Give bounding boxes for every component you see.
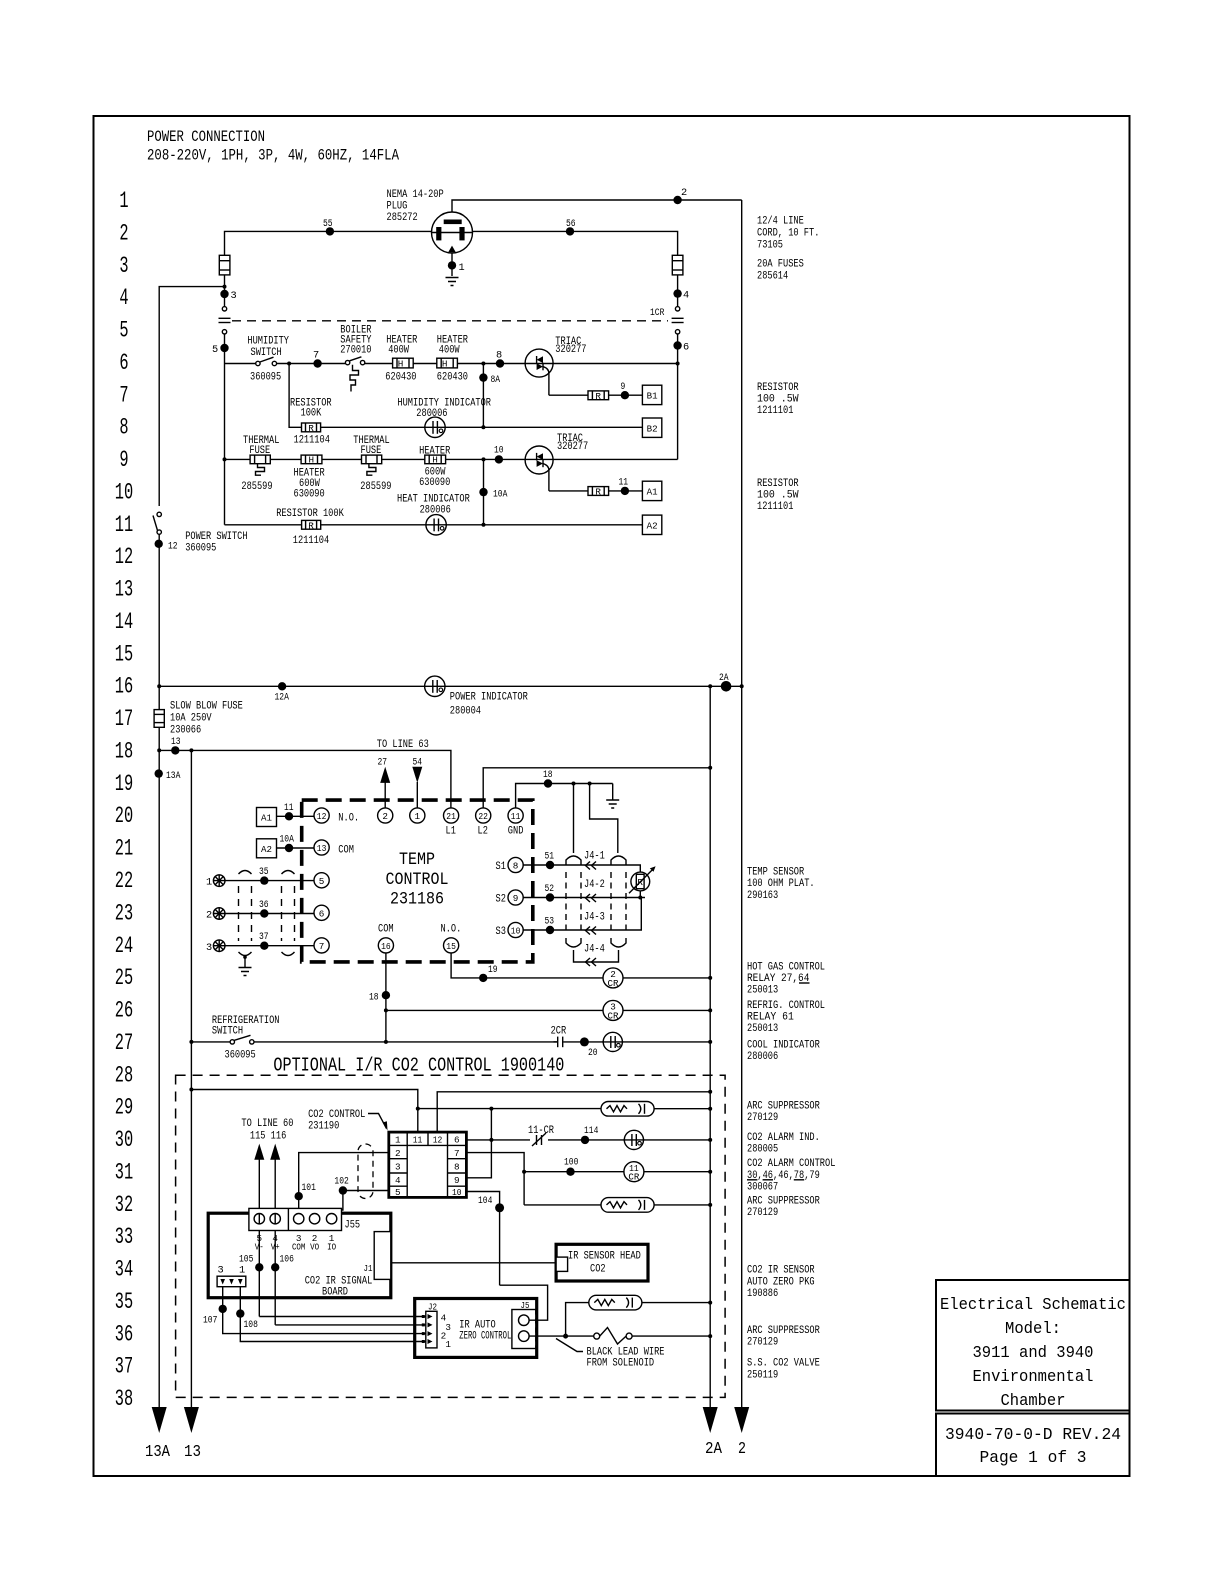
svg-text:ARC SUPPRESSOR: ARC SUPPRESSOR <box>747 1325 820 1337</box>
node 10A <box>479 459 508 524</box>
svg-text:360095: 360095 <box>250 372 281 384</box>
TO LINE 63 label <box>377 739 429 751</box>
svg-text:2: 2 <box>206 910 212 922</box>
svg-text:19: 19 <box>115 771 133 797</box>
svg-text:28: 28 <box>115 1062 133 1088</box>
node 100 <box>564 1157 578 1176</box>
cable oval co2 <box>358 1144 373 1199</box>
svg-text:1: 1 <box>395 1135 401 1146</box>
thermal fuse TF1 <box>241 435 279 493</box>
slow blow fuse <box>154 701 243 737</box>
svg-text:27: 27 <box>378 757 388 769</box>
wire 22 up to bus2A <box>483 766 712 808</box>
svg-text:270129: 270129 <box>747 1337 778 1349</box>
svg-text:31: 31 <box>115 1159 133 1185</box>
node 12 <box>155 540 178 553</box>
svg-text:6: 6 <box>454 1135 460 1146</box>
wire 107 <box>223 1287 426 1334</box>
svg-text:17: 17 <box>115 706 133 732</box>
wire row9 <box>223 364 678 525</box>
right annotation refrig relay <box>747 1000 825 1035</box>
svg-text:4: 4 <box>395 1175 401 1186</box>
svg-text:TEMP: TEMP <box>399 850 435 870</box>
svg-text:RELAY 61: RELAY 61 <box>747 1012 794 1024</box>
svg-text:RESISTOR 100K: RESISTOR 100K <box>276 508 344 520</box>
terminal 12 <box>314 808 359 825</box>
svg-text:13A: 13A <box>145 1442 170 1461</box>
svg-text:18: 18 <box>543 769 553 781</box>
1CR contact right <box>650 307 684 460</box>
svg-text:5: 5 <box>395 1187 401 1198</box>
svg-text:S.S. CO2 VALVE: S.S. CO2 VALVE <box>747 1358 820 1370</box>
node 107 <box>203 1305 227 1327</box>
shield stub left <box>572 782 576 854</box>
svg-text:NEMA 14-20P: NEMA 14-20P <box>387 189 444 201</box>
svg-text:55: 55 <box>323 218 333 230</box>
svg-text:COM: COM <box>292 1242 306 1253</box>
wire A 13bus to pin11 <box>189 1088 417 1133</box>
svg-text:250013: 250013 <box>747 1023 778 1035</box>
wire S2 <box>523 883 645 902</box>
svg-text:360095: 360095 <box>225 1050 256 1062</box>
wire row25 <box>451 953 712 980</box>
arc suppressor pill 3 <box>566 1295 713 1336</box>
svg-text:2CR: 2CR <box>551 1026 567 1038</box>
svg-text:COM: COM <box>338 845 354 857</box>
svg-text:630090: 630090 <box>294 489 325 501</box>
svg-text:POWER CONNECTION: POWER CONNECTION <box>147 128 265 146</box>
svg-text:H: H <box>398 359 404 370</box>
J4 shield oval 1 <box>566 856 581 947</box>
svg-text:Chamber: Chamber <box>1001 1391 1066 1410</box>
co2 ir signal board box <box>208 1213 391 1298</box>
svg-text:CO2 CONTROL: CO2 CONTROL <box>308 1109 365 1121</box>
node 2A <box>719 672 731 692</box>
svg-text:2: 2 <box>738 1439 746 1458</box>
CO2 control label <box>308 1109 387 1133</box>
svg-text:108: 108 <box>244 1319 258 1331</box>
arrow 2A bottom <box>703 1407 722 1458</box>
fuse F1 left <box>219 255 230 275</box>
11-CR contact <box>528 1125 554 1146</box>
svg-text:12A: 12A <box>275 692 290 704</box>
wire row31 <box>524 1170 712 1174</box>
wire 105 to J2 pin4 <box>259 1316 426 1318</box>
wire row6 <box>225 363 678 365</box>
wire A1 to 12 + node 11 <box>277 802 315 821</box>
svg-text:A1: A1 <box>647 487 658 498</box>
svg-text:Model:: Model: <box>1005 1319 1061 1338</box>
wire node4 to 1CR right <box>677 275 679 307</box>
svg-text:360095: 360095 <box>185 543 216 555</box>
arrow 13A bottom <box>145 1407 170 1461</box>
svg-text:2: 2 <box>395 1148 401 1159</box>
svg-text:320277: 320277 <box>555 344 586 356</box>
heat indicator lamp <box>397 494 470 536</box>
co2 alarm indicator lamp <box>623 1130 644 1149</box>
svg-text:2A: 2A <box>705 1439 722 1458</box>
junction resistor branch row6 <box>287 362 291 366</box>
humidity switch S1 <box>247 336 289 384</box>
svg-text:13A: 13A <box>166 770 181 782</box>
wire 106 to J2 pin3 <box>275 1324 426 1326</box>
svg-text:8: 8 <box>119 415 128 441</box>
svg-text:11: 11 <box>115 512 133 538</box>
svg-text:34: 34 <box>115 1257 133 1283</box>
svg-text:3: 3 <box>445 1322 451 1333</box>
relay coil 3CR <box>603 1000 623 1021</box>
svg-text:100 OHM PLAT.: 100 OHM PLAT. <box>747 878 815 890</box>
svg-text:S2: S2 <box>496 894 506 906</box>
svg-text:35: 35 <box>259 866 269 878</box>
wire row32 <box>524 1203 712 1207</box>
svg-text:ZERO CONTROL: ZERO CONTROL <box>459 1331 511 1343</box>
wire lamp1 to 5 + node 35 <box>225 866 314 885</box>
svg-text:8A: 8A <box>491 374 501 386</box>
node 20 <box>580 1037 598 1059</box>
svg-text:H: H <box>432 455 438 466</box>
svg-text:280006: 280006 <box>747 1051 778 1063</box>
wire J5 bottom solenoid <box>529 1334 594 1339</box>
resistor 100K row11 <box>276 508 344 547</box>
lamp cable shield right <box>282 871 295 956</box>
J55 connector strip <box>249 1208 360 1231</box>
svg-text:400W: 400W <box>388 345 409 357</box>
bus 2A vertical <box>709 686 711 1407</box>
wire row29 to pill <box>491 1108 601 1110</box>
svg-text:11: 11 <box>511 811 521 822</box>
svg-text:S3: S3 <box>496 926 507 938</box>
wire row2 <box>225 231 678 255</box>
terminal box A2 (temp) <box>257 839 277 858</box>
node 19 <box>479 964 498 982</box>
svg-text:3940-70-0-D REV.24: 3940-70-0-D REV.24 <box>945 1425 1121 1444</box>
wire lamp2 to 6 + node 36 <box>225 899 314 918</box>
svg-text:J4-2: J4-2 <box>584 879 605 891</box>
terminal 2 <box>378 808 393 823</box>
node 13A <box>155 769 182 782</box>
bus 13A vertical <box>158 534 160 1407</box>
heater H1 400W <box>385 335 417 384</box>
svg-text:HOT GAS CONTROL: HOT GAS CONTROL <box>747 962 825 974</box>
svg-text:1: 1 <box>459 262 465 274</box>
svg-text:2: 2 <box>119 220 128 246</box>
svg-text:620430: 620430 <box>437 372 468 384</box>
svg-text:33: 33 <box>115 1224 133 1250</box>
svg-text:TO LINE 63: TO LINE 63 <box>377 739 429 751</box>
wire S3 <box>523 898 641 935</box>
svg-text:12: 12 <box>433 1135 443 1146</box>
node 106 <box>271 1254 294 1272</box>
right annotation resistor 2 <box>757 478 799 513</box>
svg-text:R: R <box>308 520 314 531</box>
svg-text:12/4 LINE: 12/4 LINE <box>757 216 804 228</box>
svg-text:S1: S1 <box>496 861 507 873</box>
svg-text:250013: 250013 <box>747 985 778 997</box>
svg-text:5: 5 <box>212 344 218 356</box>
J4-1 label <box>584 851 605 870</box>
svg-text:3: 3 <box>218 1265 224 1277</box>
svg-text:13: 13 <box>171 736 181 748</box>
node 55 <box>323 218 334 236</box>
right annotation ss co2 valve <box>747 1358 820 1382</box>
J4 shield oval 2 <box>611 856 626 947</box>
stub wire to 13A bus <box>159 285 226 506</box>
svg-text:13: 13 <box>115 577 133 603</box>
svg-text:106: 106 <box>280 1254 294 1266</box>
svg-text:A2: A2 <box>647 520 658 531</box>
black lead wire label <box>556 1339 665 1370</box>
svg-text:15: 15 <box>115 641 133 667</box>
svg-text:OPTIONAL I/R CO2 CONTROL 19001: OPTIONAL I/R CO2 CONTROL 1900140 <box>273 1055 564 1077</box>
svg-text:285599: 285599 <box>360 481 391 493</box>
svg-text:35: 35 <box>115 1289 133 1315</box>
CO2 dashed box <box>176 1075 726 1397</box>
svg-text:CR: CR <box>608 1010 619 1021</box>
svg-text:HUMIDITY: HUMIDITY <box>247 336 289 348</box>
wire row18 <box>157 748 451 808</box>
header POWER CONNECTION <box>147 128 400 165</box>
J5 connector <box>512 1300 536 1349</box>
node 11 <box>619 477 630 496</box>
svg-text:2: 2 <box>382 811 388 822</box>
svg-text:5: 5 <box>319 876 325 887</box>
svg-text:10: 10 <box>452 1187 462 1198</box>
node 6 <box>673 341 689 353</box>
svg-text:22: 22 <box>478 811 488 822</box>
svg-text:A2: A2 <box>261 844 272 855</box>
svg-text:CO2 IR SENSOR: CO2 IR SENSOR <box>747 1265 815 1277</box>
terminal 6 <box>314 905 329 920</box>
svg-text:20: 20 <box>588 1047 598 1059</box>
shield drain + ground <box>239 955 252 975</box>
svg-text:1: 1 <box>445 1339 451 1350</box>
svg-text:GND: GND <box>508 826 524 838</box>
right annotation hot gas relay <box>747 962 825 997</box>
terminal box B2 <box>642 418 661 437</box>
node 13 <box>171 736 181 755</box>
NEMA 14-20P plug label <box>387 189 444 224</box>
svg-text:9: 9 <box>454 1175 460 1186</box>
wire row27 <box>189 1040 712 1044</box>
node 12A <box>275 682 290 703</box>
svg-text:10: 10 <box>494 445 504 457</box>
junction bus2A row16 <box>708 684 712 688</box>
svg-text:1: 1 <box>206 877 212 889</box>
svg-text:Page 1 of 3: Page 1 of 3 <box>980 1448 1087 1467</box>
RTD temp sensor R <box>629 866 656 893</box>
svg-text:POWER INDICATOR: POWER INDICATOR <box>450 692 528 704</box>
svg-text:POWER SWITCH: POWER SWITCH <box>185 531 247 543</box>
svg-text:12: 12 <box>168 541 178 553</box>
svg-text:300067: 300067 <box>747 1181 778 1193</box>
svg-text:VO: VO <box>310 1242 319 1253</box>
wire J5 top to 104 <box>500 1285 548 1320</box>
cool indicator lamp <box>602 1032 623 1051</box>
J4-2 label <box>584 879 605 902</box>
TO LINE 60 labels <box>241 1118 293 1143</box>
svg-text:7: 7 <box>119 382 128 408</box>
svg-text:B1: B1 <box>647 391 658 402</box>
svg-text:230066: 230066 <box>170 725 201 737</box>
svg-text:29: 29 <box>115 1095 133 1121</box>
power indicator lamp <box>424 676 528 717</box>
svg-text:AUTO ZERO PKG: AUTO ZERO PKG <box>747 1276 815 1288</box>
svg-text:CO2 ALARM IND.: CO2 ALARM IND. <box>747 1132 820 1144</box>
svg-text:CO2 ALARM CONTROL: CO2 ALARM CONTROL <box>747 1158 836 1170</box>
terminal 15 <box>441 924 462 954</box>
svg-text:CR: CR <box>608 978 619 989</box>
svg-text:13: 13 <box>317 843 327 854</box>
humidity indicator lamp <box>397 398 491 438</box>
svg-text:H: H <box>442 359 448 370</box>
svg-text:630090: 630090 <box>419 477 450 489</box>
svg-text:100 .5W: 100 .5W <box>757 394 799 406</box>
svg-text:290163: 290163 <box>747 890 778 902</box>
svg-text:36: 36 <box>259 899 269 911</box>
svg-text:IO: IO <box>327 1242 336 1253</box>
svg-text:30,46,46,78,79: 30,46,46,78,79 <box>747 1170 820 1182</box>
svg-text:280004: 280004 <box>450 706 481 718</box>
svg-text:100 .5W: 100 .5W <box>757 490 799 502</box>
svg-text:27: 27 <box>115 1030 133 1056</box>
resistor 100K row8 <box>290 398 332 447</box>
svg-text:1211101: 1211101 <box>757 405 794 417</box>
svg-text:V+: V+ <box>271 1242 280 1253</box>
svg-text:IR SENSOR HEAD: IR SENSOR HEAD <box>568 1251 641 1263</box>
svg-text:3: 3 <box>206 942 212 954</box>
svg-text:280005: 280005 <box>747 1144 778 1156</box>
svg-text:51: 51 <box>545 851 555 863</box>
boiler safety switch <box>340 325 371 392</box>
ground below plug <box>446 278 459 286</box>
wire row26 <box>384 1008 712 1012</box>
svg-text:FROM SOLENOID: FROM SOLENOID <box>587 1358 655 1370</box>
svg-text:R: R <box>595 391 601 402</box>
svg-text:H: H <box>309 455 315 466</box>
J4-3 label <box>584 912 605 935</box>
svg-text:21: 21 <box>446 811 456 822</box>
1CR contact left <box>219 307 231 364</box>
terminal box A1 <box>642 481 661 500</box>
svg-text:1: 1 <box>119 188 128 214</box>
svg-text:13: 13 <box>184 1442 201 1461</box>
svg-text:SLOW BLOW FUSE: SLOW BLOW FUSE <box>170 701 243 713</box>
svg-text:RESISTOR: RESISTOR <box>757 382 799 394</box>
svg-text:270129: 270129 <box>747 1207 778 1219</box>
svg-text:208-220V, 1PH, 3P, 4W, 60HZ, 1: 208-220V, 1PH, 3P, 4W, 60HZ, 14FLA <box>147 147 400 165</box>
pilot lamp 3 <box>206 940 225 954</box>
wire term16 down <box>385 953 387 1042</box>
svg-text:4: 4 <box>119 285 128 311</box>
bus 2 (right vertical) <box>741 200 743 1407</box>
svg-text:ARC SUPPRESSOR: ARC SUPPRESSOR <box>747 1195 820 1207</box>
drawing border frame <box>94 116 1130 1476</box>
terminal 16 <box>378 924 394 954</box>
terminal 8 <box>496 857 524 873</box>
node 104 <box>478 1195 504 1212</box>
wire S1 <box>523 851 640 873</box>
svg-text:37: 37 <box>259 931 269 943</box>
terminal 1 <box>410 808 425 823</box>
node 7 <box>313 350 322 368</box>
svg-text:11: 11 <box>619 477 629 489</box>
svg-text:190886: 190886 <box>747 1288 778 1300</box>
svg-text:21: 21 <box>115 836 133 862</box>
J2 connector <box>422 1302 452 1351</box>
wire pin5 left node 102 <box>332 1191 389 1214</box>
svg-text:37: 37 <box>115 1354 133 1380</box>
svg-text:3911 and 3940: 3911 and 3940 <box>973 1343 1094 1362</box>
node 56 <box>566 218 576 236</box>
shield stub right <box>588 782 618 854</box>
terminal 10 <box>496 922 524 938</box>
heater H4 600W <box>419 446 450 490</box>
svg-text:52: 52 <box>545 883 555 895</box>
svg-text:104: 104 <box>478 1195 492 1207</box>
right annotation 12/4 line cord <box>757 216 819 252</box>
svg-text:100: 100 <box>564 1157 578 1169</box>
arrow 2 bottom <box>734 1407 749 1458</box>
svg-text:TEMP SENSOR: TEMP SENSOR <box>747 867 804 879</box>
junction row9 x483 <box>482 457 486 461</box>
svg-text:V-: V- <box>255 1242 264 1253</box>
wire B pin12 to bus2A <box>437 1090 712 1132</box>
svg-text:3: 3 <box>395 1162 401 1173</box>
arc suppressor pill 2 <box>601 1198 654 1213</box>
right annotation arc suppressor 2 <box>747 1195 820 1219</box>
OPTIONAL I/R CO2 CONTROL title <box>273 1055 564 1077</box>
wire row1 top <box>452 200 742 213</box>
title block box 2 <box>936 1414 1130 1477</box>
wire row11 <box>225 524 643 526</box>
svg-text:38: 38 <box>115 1386 133 1412</box>
node 18b <box>369 991 390 1004</box>
node 105 <box>239 1254 264 1272</box>
terminal 21 <box>444 808 459 838</box>
svg-text:1CR: 1CR <box>650 307 664 319</box>
wire row16 <box>157 684 742 688</box>
svg-text:114: 114 <box>584 1125 598 1137</box>
svg-text:A1: A1 <box>261 813 272 824</box>
3-pin connector <box>217 1265 246 1287</box>
right annotation co2 ir sensor <box>747 1265 815 1300</box>
triac Q2 <box>525 433 588 491</box>
bus 13 vertical <box>190 750 192 1407</box>
svg-text:COOL INDICATOR: COOL INDICATOR <box>747 1040 820 1052</box>
node 2 <box>673 187 687 204</box>
relay coil 2CR <box>603 968 623 989</box>
svg-text:11: 11 <box>284 802 294 814</box>
left branch wire below fuse <box>224 275 226 307</box>
gate resistor R (A1) <box>549 487 643 498</box>
junction row6 x483 <box>481 362 485 366</box>
svg-text:10: 10 <box>511 926 521 937</box>
svg-text:285614: 285614 <box>757 271 788 283</box>
pilot lamp 2 <box>206 908 225 922</box>
node 9 <box>621 381 630 399</box>
wire pin2 left <box>299 1153 389 1214</box>
svg-text:J55: J55 <box>345 1220 361 1232</box>
pilot lamp 1 <box>206 875 225 889</box>
svg-text:R: R <box>595 487 601 498</box>
svg-text:10A 250V: 10A 250V <box>170 713 212 725</box>
svg-text:18: 18 <box>369 992 379 1004</box>
svg-text:270010: 270010 <box>340 345 371 357</box>
svg-text:231190: 231190 <box>308 1121 339 1133</box>
svg-text:L1: L1 <box>446 826 457 838</box>
svg-text:270129: 270129 <box>747 1112 778 1124</box>
